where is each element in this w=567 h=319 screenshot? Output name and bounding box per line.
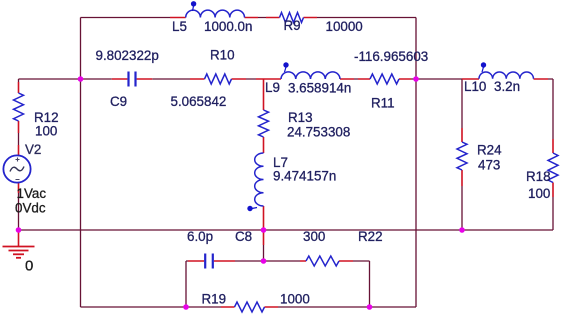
svg-text:100: 100: [35, 124, 57, 139]
svg-text:100: 100: [528, 186, 550, 201]
svg-text:5.065842: 5.065842: [171, 94, 227, 109]
svg-text:R22: R22: [358, 229, 383, 244]
svg-text:R9: R9: [284, 18, 301, 33]
svg-text:24.753308: 24.753308: [287, 125, 350, 140]
svg-text:6.0p: 6.0p: [187, 229, 213, 244]
svg-text:C8: C8: [235, 229, 252, 244]
svg-text:R18: R18: [526, 169, 551, 184]
svg-text:300: 300: [303, 229, 325, 244]
svg-text:1Vac: 1Vac: [17, 186, 47, 201]
svg-text:3.2n: 3.2n: [494, 79, 520, 94]
svg-text:L5: L5: [172, 19, 187, 34]
svg-text:-116.965603: -116.965603: [354, 49, 428, 64]
svg-text:R10: R10: [210, 48, 235, 63]
svg-text:9.802322p: 9.802322p: [96, 48, 159, 63]
svg-text:R13: R13: [288, 110, 313, 125]
svg-text:10000: 10000: [326, 19, 363, 34]
svg-text:L9: L9: [265, 80, 280, 95]
svg-text:0: 0: [25, 258, 33, 275]
svg-text:C9: C9: [110, 94, 127, 109]
svg-text:R19: R19: [202, 292, 227, 307]
svg-text:1000.0n: 1000.0n: [204, 19, 252, 34]
svg-text:473: 473: [478, 158, 500, 173]
svg-text:1000: 1000: [280, 292, 310, 307]
svg-text:3.658914n: 3.658914n: [288, 81, 351, 96]
svg-text:V2: V2: [25, 142, 41, 157]
svg-text:0Vdc: 0Vdc: [15, 201, 46, 216]
svg-text:R11: R11: [371, 96, 395, 111]
svg-text:R24: R24: [477, 143, 502, 158]
svg-text:9.474157n: 9.474157n: [273, 169, 336, 184]
svg-text:L10: L10: [464, 79, 486, 94]
